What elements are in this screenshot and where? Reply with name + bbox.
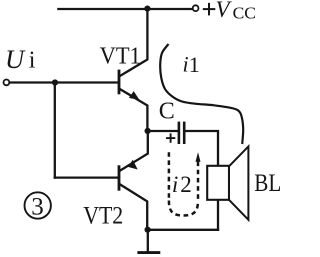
current loop i2 dashed left — [168, 152, 171, 200]
wire to VT2 base — [55, 176, 118, 178]
wire capacitor right to speaker — [186, 131, 219, 166]
node junction emitters — [145, 128, 151, 134]
transistor VT2 emitter arrow — [128, 160, 138, 170]
svg-text:2: 2 — [180, 172, 192, 197]
svg-text:VT2: VT2 — [83, 202, 123, 229]
speaker BL horn — [229, 146, 248, 219]
node junction input — [52, 79, 58, 85]
speaker BL coil rect — [207, 166, 229, 200]
current loop i2 dashed right — [197, 162, 200, 201]
wire bottom — [148, 229, 218, 231]
capacitor C left plate — [178, 122, 181, 144]
current i2 arrow — [196, 152, 201, 162]
wire left vertical — [54, 83, 56, 178]
ground — [137, 251, 160, 254]
svg-text:VT1: VT1 — [100, 42, 141, 69]
svg-text:CC: CC — [233, 4, 256, 23]
svg-text:U: U — [5, 44, 26, 74]
node junction ground — [145, 227, 151, 233]
svg-text:1: 1 — [189, 52, 200, 77]
current loop i2 dashed bottom — [169, 201, 198, 216]
wire capacitor left — [148, 130, 178, 132]
node input terminal — [4, 80, 10, 86]
label +Vcc plus — [203, 3, 216, 16]
transistor VT1 base bar — [118, 70, 121, 95]
wire input to VT1 base — [10, 81, 118, 83]
svg-text:i: i — [183, 51, 189, 76]
transistor VT1 emitter arrow — [129, 91, 140, 100]
transistor VT2 base bar — [118, 165, 121, 190]
wire VT1 emitter — [120, 89, 147, 131]
capacitor polarity plus sign — [166, 133, 175, 142]
svg-text:C: C — [159, 99, 175, 125]
wire top Vcc rail — [58, 8, 192, 10]
label figure number 3 — [25, 192, 51, 218]
capacitor C right plate — [183, 122, 186, 144]
svg-text:BL: BL — [254, 168, 281, 197]
node junction on rail — [144, 6, 150, 12]
current i1 curve — [160, 44, 243, 144]
wire VT2 collector — [121, 185, 148, 230]
wire ground lead — [147, 230, 149, 252]
wire VT1 collector — [120, 9, 147, 76]
wire VT2 emitter — [120, 131, 148, 171]
svg-text:3: 3 — [31, 193, 44, 220]
wire speaker bottom — [217, 200, 219, 230]
svg-text:i: i — [29, 47, 36, 73]
node Vcc terminal — [193, 5, 199, 11]
svg-text:i: i — [172, 172, 178, 197]
